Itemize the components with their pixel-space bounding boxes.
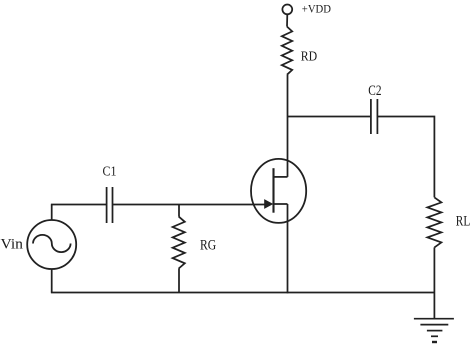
resistor RD [282,27,292,75]
wire bottom rail [51,292,435,294]
svg-text:RD: RD [301,48,318,63]
svg-text:RG: RG [200,238,217,254]
ground [414,319,454,342]
capacitor C1 [107,187,113,223]
svg-text:C2: C2 [368,83,381,99]
resistor RL [427,197,441,247]
svg-text:RL: RL [456,213,471,229]
wire source vertical [287,204,289,293]
voltage source Vin [27,220,76,269]
wire C1 to gate [113,204,266,206]
wire RG top [178,205,180,217]
transistor Q1 MOSFET [251,159,306,223]
power terminal +VDD [282,4,292,14]
wire Vin top stub [51,205,53,221]
wire RG bottom [178,269,180,293]
wire Vin bottom stub [51,269,53,293]
wire drain vertical [287,75,289,177]
wire C2 to RL corner [378,117,435,198]
resistor RG [173,217,185,269]
svg-text:C1: C1 [103,165,117,180]
capacitor C2 [371,99,378,134]
svg-text:+VDD: +VDD [302,4,331,16]
wire drain node to C2 [288,116,371,118]
wire VDD to RD [286,14,288,26]
wire RL bottom to ground [433,247,435,318]
wire top left to C1 [51,204,106,206]
svg-text:Vin: Vin [1,237,24,253]
